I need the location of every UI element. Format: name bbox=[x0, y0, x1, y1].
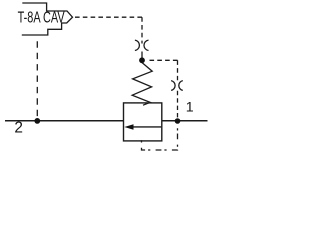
svg-text:1: 1 bbox=[186, 100, 194, 116]
svg-text:T-8A CAV: T-8A CAV bbox=[18, 10, 65, 27]
svg-text:2: 2 bbox=[14, 119, 23, 136]
